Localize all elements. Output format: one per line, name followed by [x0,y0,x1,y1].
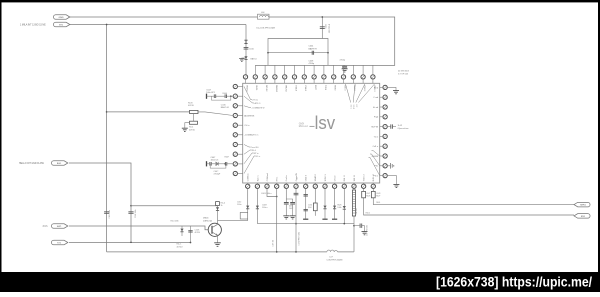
svg-text:R0.0 D06: R0.0 D06 [171,221,179,223]
bottom pin 10 [332,184,336,188]
resistor R0B [190,110,199,113]
top pin 6 [292,75,296,79]
ground at right pin 10 [387,176,396,185]
right pin 5 [383,124,387,128]
diode D03 on pin CB2 [256,188,258,223]
diode D06 cluster2 [216,162,219,166]
capacitor + ground pin CB7 [305,188,307,218]
svg-text:100n+: 100n+ [262,207,268,209]
svg-text:R0/6: R0/6 [366,195,370,197]
junction [353,225,355,227]
horizontal join line y=223.6 [257,223,354,225]
resistor R012 pin CB14 [373,188,574,204]
svg-text:C0/6 100n: C0/6 100n [135,209,137,218]
top pin 2 [253,75,257,79]
svg-text:SDAT 8: SDAT 8 [314,173,317,181]
junction [267,52,269,54]
net flag 3CH [51,224,67,229]
ground [182,128,188,131]
sub-circuit box C024/C028 [268,39,328,66]
svg-text:R04?: R04? [225,157,230,159]
svg-text:4700p: 4700p [340,59,346,61]
svg-text:(TS 1): (TS 1) [253,100,259,102]
svg-text:BAV99 H: BAV99 H [309,47,318,50]
svg-text:TMS9: TMS9 [334,85,336,91]
resistor R011 pin CB13 [364,188,574,215]
wire: VBUS line to top rail [69,17,395,65]
svg-text:D1 in: D1 in [256,156,260,158]
top pin 10 [332,75,336,79]
svg-text:SW-PB: SW-PB [356,208,358,215]
svg-text:RST7: RST7 [314,85,316,91]
left pin 3 [233,104,237,108]
capacitor C015 [321,17,323,39]
svg-text:COILTPKY G&L: COILTPKY G&L [299,232,301,245]
bottom pin 7 [304,184,308,188]
junction [130,205,132,207]
svg-text:[1626x738] https://upic.me/: [1626x738] https://upic.me/ [436,274,592,290]
svg-text:C015: C015 [324,24,326,29]
svg-text:COMaud: COMaud [267,173,269,181]
junction [295,223,297,225]
svg-text:R0t.1: R0t.1 [366,212,371,215]
left pin 8 [233,152,237,156]
bottom pin 2 [255,184,259,188]
base network cap [190,226,192,243]
svg-text:1 MILA INT 13 BO 15 NE: 1 MILA INT 13 BO 15 NE [20,24,46,27]
svg-text:GND 2: GND 2 [306,174,308,181]
slanted leads top right [346,84,375,103]
slanted leads right pins 8-10 [369,151,380,176]
resistor R0+4 [216,202,220,206]
svg-text:100n 6P1: 100n 6P1 [206,92,215,94]
diode D05b pin CB11 [343,188,345,223]
svg-text:-COM/AUTO in: -COM/AUTO in [244,134,259,137]
top pin 5 [283,75,287,79]
slanted leads left pins 7-10 [244,145,256,174]
ground [393,184,399,187]
left pin 10 [233,171,237,175]
left pin 6 [233,133,237,137]
diode D04 pin CB9 to ground [324,188,326,218]
bottom pin 6 [294,184,298,188]
svg-text:100k: 100k [337,207,341,209]
svg-text:C0? 470/16V: C0? 470/16V [366,224,368,236]
right pin 3 [383,105,387,109]
capacitor C032 branch to ground [286,199,292,202]
net flag HELLO [51,161,67,166]
junction [106,24,108,26]
svg-text:In TOP 003: In TOP 003 [398,74,409,76]
svg-text:XTAL5: XTAL5 [294,85,297,92]
svg-text:TCK8: TCK8 [324,85,326,91]
svg-text:DMNS3: DMNS3 [275,85,277,93]
left pin 9 [233,162,237,166]
top pin 9 [322,75,326,79]
junction [190,242,192,244]
wire pin CB4 to rail [276,188,278,252]
bottom pin 3 [265,184,269,188]
diode D02 on pin CB1 [247,188,249,220]
svg-text:HELLO INT GND FLOW: HELLO INT GND FLOW [19,163,45,165]
svg-text:MT in: MT in [254,153,259,155]
right pin 1 [383,85,387,89]
svg-text:100n: 100n [237,204,241,206]
bottom pin 8 [313,184,317,188]
ground [393,91,399,94]
svg-text:Spk in: Spk in [257,176,259,182]
top pin 14 [371,75,375,79]
svg-text:BG1: BG1 [57,163,62,165]
svg-text:R0/7: R0/7 [376,195,380,197]
capacitor C016 [244,48,249,50]
top pin 7 [302,75,306,79]
svg-text:4700pF: 4700pF [214,174,222,176]
svg-text:GND1: GND1 [255,85,257,91]
top pin 4 [273,75,277,79]
ground [362,232,368,235]
svg-text:BAV/9.01: BAV/9.01 [221,106,230,109]
ground [239,59,244,62]
wire: vertical bus V1 [106,25,108,252]
top pin 13 [361,75,365,79]
svg-text:SW1: SW1 [57,226,63,228]
junction [230,95,232,97]
emitter to ground [217,235,219,242]
svg-text:R0.4: R0.4 [252,150,256,152]
wire: bottom rail [107,251,354,253]
svg-text:SW 12: SW 12 [354,174,356,181]
net flag TX [51,240,67,245]
svg-text:C0/6 100n: C0/6 100n [109,210,111,219]
resistor R010 pin CB8 [314,188,316,215]
svg-text:C md: C md [373,97,379,99]
svg-text:SCLK 9: SCLK 9 [325,173,327,181]
svg-text:GND: GND [59,17,64,19]
capacitor C017a [214,94,215,98]
bottom pin 9 [323,184,327,188]
svg-text:1k: 1k [221,205,223,207]
right pin 2 [383,95,387,99]
transistor Q1 [208,223,221,236]
wire: HELLO line to V2 [69,163,131,242]
svg-text:APD O: APD O [255,102,261,105]
svg-text:100?: 100? [289,208,293,210]
wire pin CB3 [267,188,277,196]
bottom pin 14 [371,184,375,188]
wire: VIN line [69,24,246,26]
svg-text:4700p: 4700p [309,63,315,65]
top pin 3 [263,75,267,79]
top pin 12 [351,75,355,79]
top pin 11 [341,75,345,79]
bottom pin 4 [275,184,279,188]
ground [332,218,337,220]
svg-text:COMbus: COMbus [248,173,250,181]
ground [214,243,221,247]
bottom pin 11 [342,184,346,188]
top pin 8 [312,75,316,79]
svg-text:SUP IN: SUP IN [371,127,378,129]
junction [295,251,297,253]
junction [224,163,226,165]
base network diode [181,226,183,236]
svg-text:Oljwrrzvhnw: Oljwrrzvhnw [398,128,409,130]
svg-text:C0? 1M: C0? 1M [273,239,275,246]
junction [276,196,278,198]
svg-text:40T0U: 40T0U [177,246,184,248]
net flag VIN [53,22,69,27]
left pin 2 [233,94,237,98]
svg-text:S/GMS: S/GMS [371,156,378,158]
svg-text:R0t1: R0t1 [376,201,380,204]
right pin 4 [383,115,387,119]
svg-text:Dia.COILTPKY-G&M: Dia.COILTPKY-G&M [257,27,276,29]
connector/crystal X1 pin CB12 [353,188,355,252]
right pin 6 [383,134,387,138]
junction [327,52,329,54]
right pin 10 [383,173,387,177]
capacitor C024 [312,51,313,55]
svg-text:40T0U: 40T0U [188,105,195,107]
svg-text:CU in: CU in [244,125,250,127]
svg-text:4h nd: 4h nd [373,107,379,109]
junction [321,16,323,18]
resistor R0A [193,114,195,122]
small box on CB1 branch [240,213,248,220]
wire: TX line [69,242,191,244]
capacitor C017b [225,94,226,98]
svg-text:40T0U: 40T0U [189,129,196,131]
capacitor C030 on SUP IN [387,126,390,128]
svg-text:XTAL6: XTAL6 [304,85,307,92]
left pin 7 [233,142,237,146]
svg-text:Gnd in: Gnd in [286,175,288,181]
ground at right pin 1 [387,87,396,90]
net flag VBUS [53,15,69,20]
right pin 9 [383,164,387,168]
svg-text:4k SW 0603: 4k SW 0603 [398,70,410,72]
svg-text:OgginVN: OgginVN [296,173,298,182]
left pin 5 [233,123,237,127]
svg-text:R04: R04 [308,207,311,209]
antenna terminal T2 [206,161,208,166]
diode D05 pin CB10 to ground [334,188,336,218]
ferrite bead FB1 [245,25,247,75]
wire pin CB6 long to rail [295,188,297,252]
svg-text:Com 010: Com 010 [251,147,259,149]
bottom pin 13 [361,184,365,188]
zener diode D01 [244,56,247,59]
capacitor C029 to ground [344,64,346,67]
ground [303,218,308,220]
svg-text:R046: R046 [223,93,228,95]
capacitor C047b [225,162,226,166]
svg-text:VBUS4: VBUS4 [285,85,287,92]
svg-text:3 Ch: 3 Ch [43,226,49,228]
svg-text:DPLS2: DPLS2 [265,85,267,92]
wire: 3Ch line to Q1 base [69,226,208,230]
bottom pin 1 [246,184,250,188]
slanted leads left pins 1-3 [244,87,254,108]
ground at right pin 9 [387,165,390,167]
ground [283,216,289,219]
svg-text:3 2 1: 3 2 1 [349,105,351,109]
junction [106,111,108,113]
antenna terminal T1 [206,94,208,99]
svg-text:lsv: lsv [315,112,336,133]
inductor L05 on bottom rail [327,250,338,252]
svg-text:Micro-sd: Micro-sd [299,125,309,128]
ground [290,216,296,219]
svg-text:COILTPKY-G&M3: COILTPKY-G&M3 [327,259,344,261]
left pin 1 [233,84,237,88]
svg-text:TXD 13: TXD 13 [364,174,366,182]
right pin 7 [383,144,387,148]
net flag OUT2 [574,214,590,219]
top pin 1 [243,75,247,79]
bottom pin 12 [352,184,356,188]
junction [276,251,278,253]
svg-text:RXD 14: RXD 14 [373,173,375,181]
capacitor C031 pin CB5 to ground [285,188,287,202]
IC U1 GMX Micro-sd body [243,83,380,183]
junction [343,223,345,225]
net flag OUT1 [574,202,590,207]
capacitor on V1 [104,212,109,214]
svg-text:C003 100n+: C003 100n+ [261,193,273,195]
svg-text:-COM/ANTS W: -COM/ANTS W [252,106,265,109]
svg-text:0 2: 0 2 [355,105,357,108]
svg-text:ADDRESS: ADDRESS [244,114,255,117]
ground (zener) [242,57,246,60]
bottom pin 5 [284,184,288,188]
svg-text:SER1: SER1 [580,204,586,206]
inductor L04 [258,14,270,19]
svg-text:4700p 50V: 4700p 50V [327,24,329,34]
svg-text:CS 10: CS 10 [335,175,337,181]
junction [130,241,132,243]
ground [322,218,327,220]
right pin 8 [383,154,387,158]
wire: collector join [218,220,248,222]
svg-text:D4H/0.5A: D4H/0.5A [203,219,212,222]
svg-text:Cd1 n: Cd1 n [373,146,379,148]
svg-text:40T0U: 40T0U [195,232,201,234]
zener diode DM04 [217,206,219,224]
loop wire below cluster2 [210,164,226,168]
left pin 4 [233,113,237,117]
loop wire below cluster1 [212,96,231,100]
svg-text:GMX: GMX [299,123,305,125]
capacitor C047a [210,162,211,166]
svg-text:BAT54: BAT54 [251,58,258,61]
svg-text:3 2 4: 3 2 4 [352,105,354,109]
svg-text:DIN 11: DIN 11 [344,174,346,181]
ground [342,69,348,72]
svg-text:R0.B: R0.B [188,102,193,104]
svg-text:TDI10: TDI10 [343,85,345,91]
capacitor C016b on V2 [128,212,133,214]
svg-text:100n 6.3: 100n 6.3 [211,160,220,162]
